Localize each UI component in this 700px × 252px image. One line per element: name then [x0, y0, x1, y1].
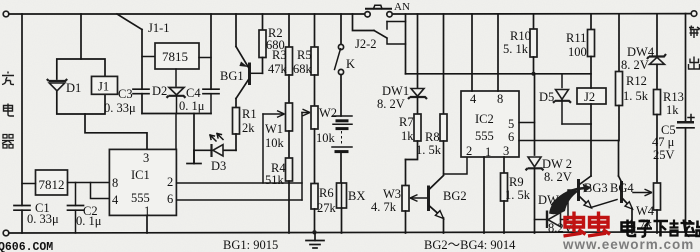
- potentiometer W1: [263, 75, 293, 150]
- wire J1 loop to IC1 pin3: [85, 114, 147, 149]
- svg-text:68k: 68k: [293, 62, 313, 76]
- watermark 下 (black): [654, 221, 669, 237]
- watermark 站 (black): [685, 220, 700, 236]
- svg-text:W4: W4: [636, 204, 655, 218]
- capacitor C5 electrolytic: [652, 14, 694, 232]
- svg-text:5. 1k: 5. 1k: [503, 42, 529, 56]
- svg-text:J1-1: J1-1: [148, 21, 170, 35]
- wire J1-1 to 7815 input and C3 column: [141, 30, 143, 90]
- wire BG2 collector to IC2 pin2: [444, 157, 468, 174]
- wire bus after AN: [406, 73, 592, 75]
- zener D5: [539, 74, 571, 124]
- resistor R7: [399, 114, 421, 160]
- label 充 (charger): [2, 72, 14, 85]
- svg-text:1k: 1k: [666, 103, 679, 117]
- transistor BG2 9014: [429, 176, 467, 234]
- svg-text:2: 2: [167, 175, 173, 189]
- svg-text:R1: R1: [242, 107, 257, 121]
- wire J2/D5 loop bottom: [562, 123, 591, 125]
- regulator 7812: [22, 170, 68, 195]
- wire D1/J1 loop: [57, 59, 105, 79]
- svg-text:3: 3: [503, 144, 509, 158]
- svg-text:W2: W2: [319, 106, 337, 120]
- svg-text:DW1: DW1: [382, 84, 409, 98]
- transistor BG3 9014: [579, 176, 618, 208]
- wire left column x22 upper: [21, 14, 23, 206]
- svg-text:R13: R13: [663, 90, 684, 104]
- svg-text:3: 3: [143, 151, 149, 165]
- svg-text:0. 33μ: 0. 33μ: [27, 212, 59, 226]
- transistor BG1 9015: [220, 47, 263, 99]
- svg-text:2: 2: [466, 144, 472, 158]
- diode D2: [152, 84, 186, 114]
- zener DW4: [621, 14, 666, 90]
- battery cells: [332, 75, 352, 183]
- svg-text:5: 5: [508, 117, 514, 131]
- wire left column x22 lower: [21, 210, 23, 233]
- resistor R1: [233, 99, 257, 151]
- svg-text:6: 6: [508, 130, 514, 144]
- svg-text:100: 100: [568, 45, 587, 59]
- svg-text:R9: R9: [509, 175, 524, 189]
- transistor BG4 9014: [610, 176, 634, 233]
- resistor R3: [268, 14, 293, 76]
- wire 7815 gnd pin: [175, 69, 177, 86]
- wire IC1 pin6 line: [177, 199, 303, 201]
- svg-text:R10: R10: [510, 29, 531, 43]
- pushbutton AN: [365, 1, 410, 17]
- watermark 子 (black): [637, 221, 652, 237]
- svg-text:C3: C3: [118, 87, 133, 101]
- capacitor C3: [104, 87, 149, 115]
- relay coil J2: [577, 88, 606, 104]
- svg-text:BG2: BG2: [443, 189, 467, 203]
- svg-text:1. 5k: 1. 5k: [623, 89, 649, 103]
- svg-text:D2: D2: [152, 84, 167, 98]
- svg-text:R8: R8: [425, 130, 440, 144]
- wire pin2/pin6 link: [289, 182, 302, 184]
- wire W2 wiper riser: [301, 113, 303, 201]
- wire IC1 pin1 to ground rail: [146, 216, 148, 234]
- svg-text:BX: BX: [348, 189, 365, 203]
- svg-text:C4: C4: [186, 86, 201, 100]
- svg-text:51k: 51k: [265, 173, 285, 187]
- resistor R10: [503, 14, 537, 74]
- svg-text:K: K: [346, 57, 355, 71]
- wire column x211 rail to C4: [210, 14, 212, 89]
- svg-text:DW 2: DW 2: [542, 157, 572, 171]
- svg-text:DW4: DW4: [627, 45, 655, 59]
- resistor R4: [265, 131, 293, 233]
- resistor R5: [293, 14, 318, 76]
- zener DW2: [526, 157, 572, 233]
- svg-text:R12: R12: [626, 74, 647, 88]
- LED D3: [194, 134, 236, 174]
- wire IC2 pin1 to ground: [483, 157, 485, 233]
- svg-text:J2-2: J2-2: [355, 37, 377, 51]
- capacitor C4: [179, 86, 219, 114]
- svg-text:0. 1μ: 0. 1μ: [179, 99, 205, 113]
- svg-text:IC2: IC2: [475, 112, 494, 126]
- potentiometer W2: [302, 75, 337, 145]
- svg-text:1. 5k: 1. 5k: [416, 143, 442, 157]
- svg-text:4: 4: [112, 193, 119, 207]
- svg-text:R7: R7: [399, 115, 414, 129]
- wire 7812 output to IC1 pin8: [68, 182, 110, 184]
- op-amp IC1 555 box: [109, 149, 176, 218]
- node input terminal top-left: [3, 11, 9, 17]
- svg-text:25V: 25V: [653, 148, 675, 162]
- watermark red 虫 #2: [588, 212, 610, 237]
- svg-text:4: 4: [470, 92, 477, 106]
- svg-text:10k: 10k: [265, 136, 285, 150]
- wire branch to IC1 pin4: [91, 183, 110, 199]
- svg-text:8: 8: [112, 176, 118, 190]
- wire IC2 pin6 line: [519, 140, 619, 142]
- wire short stub above IC1 right edge: [175, 114, 177, 150]
- ground for D3: [193, 150, 195, 163]
- watermark 载 (black): [670, 220, 693, 237]
- svg-text:W1: W1: [265, 122, 283, 136]
- svg-text:8: 8: [497, 92, 503, 106]
- resistor R11: [566, 14, 595, 88]
- zener DW1: [377, 14, 427, 114]
- svg-text:27k: 27k: [317, 201, 337, 215]
- junction dot bus/R10: [532, 72, 536, 76]
- wire J2 column down to BG3: [590, 124, 592, 176]
- wire 7815 out pin: [199, 57, 211, 59]
- switch J1-1 arm: [117, 14, 142, 30]
- svg-text:8. 2V: 8. 2V: [621, 58, 649, 72]
- potentiometer W3: [371, 160, 428, 234]
- zener DW3: [535, 190, 578, 235]
- wire top rail right section: [393, 13, 692, 15]
- svg-text:W3: W3: [383, 187, 401, 201]
- svg-text:R11: R11: [566, 31, 586, 45]
- fuse BX: [337, 183, 366, 233]
- junction dot R6/ground: [312, 230, 316, 234]
- wire IC2 pin8 to rail: [497, 14, 499, 91]
- svg-text:555: 555: [131, 191, 150, 205]
- svg-text:1: 1: [485, 145, 491, 159]
- wire DW2 column: [534, 74, 536, 155]
- ground symbol below rail: [306, 233, 324, 248]
- resistor R9: [501, 157, 531, 233]
- svg-text:0. 33μ: 0. 33μ: [104, 101, 136, 115]
- svg-text:0. 1μ: 0. 1μ: [76, 214, 102, 228]
- label 电 (charger): [4, 104, 15, 117]
- resistor R13: [654, 90, 684, 184]
- svg-text:8. 2V: 8. 2V: [544, 170, 572, 184]
- svg-text:AN: AN: [394, 1, 410, 13]
- resistor R6: [311, 184, 337, 234]
- svg-text:D1: D1: [66, 81, 81, 95]
- svg-text:IC1: IC1: [131, 168, 150, 182]
- wire stub rail to D1/J1 loop: [80, 14, 82, 59]
- svg-text:R5: R5: [297, 48, 312, 62]
- capacitor C2: [68, 183, 102, 234]
- label 器 (charger): [2, 135, 14, 149]
- wire column x405.5 rail to bus: [405, 14, 407, 74]
- capacitor C1: [14, 201, 59, 226]
- wire IC2 pin4 to rail: [471, 14, 473, 91]
- watermark 电 (black): [622, 220, 636, 237]
- svg-text:BG4: BG4: [610, 181, 634, 195]
- diode D1: [47, 79, 81, 95]
- svg-text:BG1: BG1: [220, 69, 244, 83]
- svg-text:1k: 1k: [401, 129, 414, 143]
- svg-text:R6: R6: [319, 186, 334, 200]
- svg-text:R3: R3: [272, 48, 287, 62]
- wire BG1 emitter to rail: [235, 14, 237, 47]
- wire W1 wiper to IC1 pin2 line: [262, 114, 264, 183]
- label 输 (output): [689, 26, 700, 39]
- svg-text:D5: D5: [539, 90, 554, 104]
- svg-text:555: 555: [475, 129, 494, 143]
- svg-text:1. 5k: 1. 5k: [505, 188, 531, 202]
- svg-text:10k: 10k: [316, 131, 336, 145]
- resistor R8: [416, 14, 447, 174]
- svg-text:47 μ: 47 μ: [652, 135, 675, 149]
- node input terminal bottom-left: [3, 230, 9, 236]
- node output terminal top-right: [691, 11, 697, 17]
- timer IC2 555 box: [461, 91, 519, 159]
- wire gnd bottom edge of 7815 section: [142, 113, 211, 115]
- regulator 7815: [155, 43, 199, 69]
- svg-text:D3: D3: [211, 159, 226, 173]
- svg-text:6: 6: [167, 192, 173, 206]
- svg-text:4. 7k: 4. 7k: [371, 200, 397, 214]
- svg-text:7815: 7815: [162, 49, 188, 64]
- watermark black arrow blob: [551, 184, 592, 208]
- svg-text:Q606.COM: Q606.COM: [0, 241, 53, 252]
- ground T of 7815 section: [187, 114, 201, 164]
- label 出 (output): [689, 57, 700, 70]
- resistor R12: [616, 14, 649, 141]
- resistor R2: [259, 14, 285, 73]
- potentiometer W4: [627, 183, 661, 233]
- wire bottom rail: [9, 232, 694, 233]
- wire top rail left section: [9, 13, 365, 15]
- wire W2 to R6: [314, 129, 316, 184]
- svg-text:47k: 47k: [268, 62, 288, 76]
- svg-text:BG2～BG4: 9014: BG2～BG4: 9014: [424, 238, 516, 252]
- switch K: [335, 14, 356, 75]
- switch J2-2: [353, 14, 406, 51]
- wire IC1 pin2 line: [177, 182, 290, 184]
- svg-text:J1: J1: [98, 80, 109, 94]
- svg-text:7812: 7812: [39, 177, 65, 192]
- wire IC2 pin5 stub: [519, 122, 535, 124]
- watermark red 虫 #1: [564, 212, 586, 237]
- svg-text:8. 2V: 8. 2V: [377, 97, 405, 111]
- wire R12/pin6 to BG4 collector: [618, 141, 620, 177]
- svg-text:2k: 2k: [242, 121, 255, 135]
- relay coil J1: [92, 76, 118, 94]
- svg-text:J2: J2: [584, 90, 595, 104]
- svg-text:www.eeworm.com: www.eeworm.com: [562, 237, 694, 252]
- svg-text:BG1: 9015: BG1: 9015: [223, 238, 278, 252]
